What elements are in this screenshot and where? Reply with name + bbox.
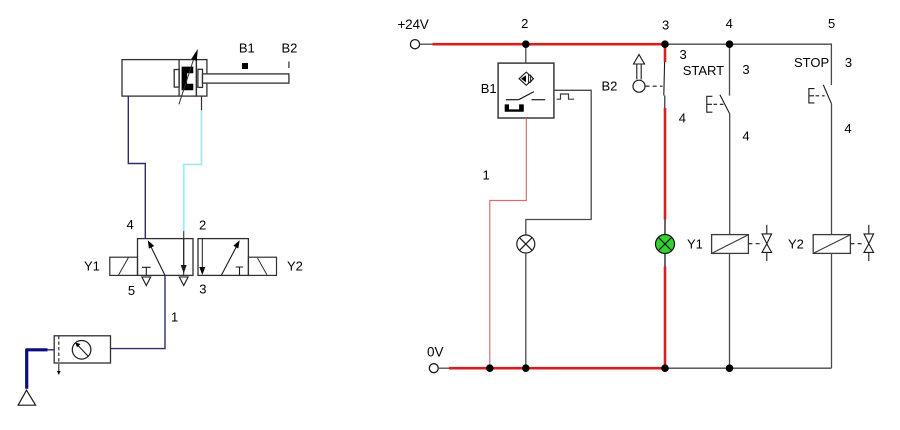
bottom rail 0V (red) [449, 367, 665, 370]
bottom rail continuation [665, 367, 832, 369]
service unit 0Z (filter/regulator simplified) [54, 336, 110, 363]
wire coil Y1 to 0V [729, 253, 731, 368]
top rail continuation [665, 44, 831, 85]
exhaust silencer port 5 [142, 277, 151, 286]
valve path 2-3 line [183, 239, 185, 276]
STOP pushbutton symbol [809, 89, 815, 103]
supply line (thick blue) [27, 350, 48, 389]
solenoid Y2 box [248, 257, 276, 275]
junction dot bottom 4 [726, 364, 734, 372]
svg-text:3: 3 [742, 62, 749, 77]
svg-text:B1: B1 [239, 40, 255, 55]
coil Y1 link dashes [748, 243, 763, 245]
sensor B1 block [498, 63, 554, 118]
svg-text:STOP: STOP [794, 55, 829, 70]
wire valve port 1 to service unit (blue) [111, 275, 166, 348]
coil Y1 valve symbol [766, 225, 768, 234]
solenoid Y1 box [110, 257, 138, 275]
wire cylinder right port stub [201, 96, 203, 110]
marker B1 [242, 63, 248, 69]
svg-text:B2: B2 [282, 40, 298, 55]
B1 magnet symbol [505, 104, 524, 111]
svg-text:Y1: Y1 [84, 258, 100, 273]
valve blocked port 5 (T) [142, 267, 151, 275]
svg-text:4: 4 [127, 217, 134, 232]
svg-text:5: 5 [128, 283, 135, 298]
exhaust silencer port 3 [179, 277, 188, 286]
junction dot bottom 3 [661, 364, 669, 372]
B1 switch contact [506, 99, 519, 101]
valve 1V (5/2-way) left position square [138, 239, 194, 276]
junction dot top 2 [522, 40, 530, 48]
svg-text:Y2: Y2 [788, 236, 804, 251]
svg-text:2: 2 [521, 16, 528, 31]
svg-text:Y2: Y2 [287, 258, 303, 273]
coil Y2 link dashes [850, 243, 865, 245]
valve right blocked port (T) [236, 267, 243, 275]
svg-text:2: 2 [199, 217, 206, 232]
piston rod [203, 74, 289, 83]
drain arrow [58, 364, 60, 372]
svg-text:B1: B1 [481, 81, 497, 96]
top rail +24V (red) [433, 43, 666, 46]
B2 link dashes [646, 85, 663, 87]
B2 actuator circle [633, 80, 645, 92]
B1 pulse symbol [557, 94, 575, 99]
junction dot top 4 [726, 40, 734, 48]
STOP contact [823, 85, 831, 104]
B2 contact (column 3) [664, 44, 667, 62]
svg-text:4: 4 [726, 16, 733, 31]
marker B2 [288, 62, 290, 69]
svg-text:1: 1 [171, 310, 178, 325]
svg-text:0V: 0V [427, 345, 444, 360]
piston magnet [182, 67, 194, 91]
wire B1 bottom to 0V (thin red) [490, 118, 527, 368]
START contact [720, 95, 730, 114]
START wire top [729, 44, 731, 95]
valve path 1 to 4 arrow [150, 244, 165, 275]
svg-text:3: 3 [845, 55, 852, 70]
wire rail to B1 [525, 44, 527, 63]
svg-text:3: 3 [199, 282, 206, 297]
B2 actuator arrow [636, 64, 638, 80]
junction dot bottom 1 [486, 364, 494, 372]
valve right square down arrow [201, 239, 203, 268]
junction dot bottom 2 [522, 364, 530, 372]
svg-text:+24V: +24V [398, 17, 429, 32]
svg-text:START: START [683, 63, 724, 78]
svg-text:4: 4 [679, 110, 686, 125]
wire cylinder left port to valve port 4 (blue) [128, 96, 145, 239]
svg-text:3: 3 [679, 47, 686, 62]
svg-text:4: 4 [742, 128, 749, 143]
junction dot top 3 [661, 40, 669, 48]
compressed air source [18, 390, 35, 405]
wire lamp to 0V (red) [664, 254, 666, 267]
cylinder 1A (double-acting, adjustable cushioning) [122, 60, 207, 97]
valve right square diagonal arrow [221, 244, 238, 276]
indicator lamp [517, 235, 535, 253]
cushioning arrow [179, 57, 195, 105]
wire START to coil Y1 [729, 114, 731, 235]
svg-text:1: 1 [483, 168, 490, 183]
green lamp [656, 235, 675, 254]
START pushbutton symbol [707, 96, 713, 112]
wire B2 to lamp Y1 (red) [664, 108, 667, 220]
svg-text:4: 4 [844, 121, 851, 136]
wire coil Y2 to 0V [831, 253, 833, 368]
wire lamp to 0V [525, 253, 527, 368]
wire cylinder right port to valve port 2 (cyan) [184, 110, 202, 231]
wire service unit inlet stub [47, 349, 54, 351]
svg-text:Y1: Y1 [687, 236, 703, 251]
wire B1 output to lamp [526, 90, 591, 235]
valve right position square [198, 239, 248, 276]
svg-text:3: 3 [662, 18, 669, 33]
flow arrow into port 2 [183, 231, 185, 267]
wire STOP to coil Y2 [831, 104, 833, 235]
coil Y2 valve symbol [868, 225, 870, 234]
svg-text:B2: B2 [602, 79, 618, 94]
regulator gauge circle [72, 341, 91, 360]
relay coil Y2 [813, 235, 850, 254]
B1 proximity diamond [519, 72, 533, 85]
svg-text:5: 5 [828, 16, 835, 31]
